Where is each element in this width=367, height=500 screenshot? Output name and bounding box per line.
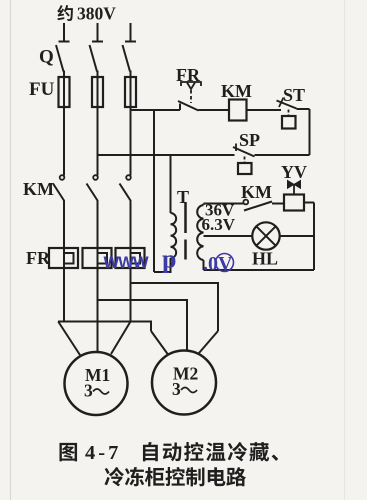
contactor KM main contact pole 1 bbox=[53, 175, 64, 200]
pressure switch SP contact bbox=[233, 144, 310, 157]
wire phase 3 FR to funnel bar bbox=[130, 268, 132, 322]
caption line 1 图4-7 自动控温冷藏、 bbox=[59, 442, 278, 464]
svg-text:3: 3 bbox=[84, 381, 93, 401]
label 36V bbox=[205, 201, 235, 220]
thermostat ST sensor element bbox=[282, 110, 296, 129]
motor M1 bbox=[65, 352, 128, 415]
watermark P (blue) bbox=[162, 245, 176, 274]
wire branch phase 3 to motor M2 (right) bbox=[131, 283, 219, 353]
wire primary bottom U bbox=[154, 258, 171, 272]
svg-text:KM: KM bbox=[221, 81, 252, 101]
svg-text:WWW: WWW bbox=[104, 254, 150, 272]
svg-text:6.3V: 6.3V bbox=[202, 215, 236, 234]
wire ST to SP line (right drop) bbox=[309, 109, 311, 155]
contactor coil KM bbox=[229, 100, 247, 121]
wire phase 2 FR to motor M1 bbox=[97, 268, 99, 353]
svg-text:KM: KM bbox=[241, 182, 272, 202]
wire lamp to right rail bbox=[280, 235, 314, 237]
wire branch phase 2 to motor M2 (middle) bbox=[98, 300, 188, 352]
label KM (main contacts) bbox=[23, 179, 54, 199]
wire secondary 36V tap bbox=[204, 204, 244, 206]
wire phase 1 fuse to KM contact bbox=[63, 107, 65, 176]
switch Q blade pole 1 bbox=[56, 45, 64, 72]
wire phase 2 fuse to KM contact bbox=[97, 107, 99, 176]
wire right rail bbox=[313, 203, 315, 271]
contactor KM main contact pole 2 bbox=[87, 175, 98, 200]
wire FR contact to KM coil bbox=[199, 109, 230, 111]
svg-text:HL: HL bbox=[252, 249, 278, 269]
svg-text:FU: FU bbox=[29, 79, 55, 100]
svg-text:3: 3 bbox=[172, 379, 181, 399]
label 6.3V bbox=[202, 215, 236, 234]
wire phase 3 fuse to KM contact bbox=[130, 107, 132, 176]
indicator lamp HL bbox=[252, 222, 279, 249]
wire phase 3 tap to FR contact bbox=[130, 109, 181, 111]
wire M2 funnel left bbox=[151, 321, 168, 355]
wire phase 1 KM contact to FR element bbox=[63, 200, 65, 248]
thermal relay FR heater element pole 3 bbox=[116, 248, 145, 268]
thermostat switch ST contact bbox=[277, 98, 310, 110]
svg-text:4-7: 4-7 bbox=[85, 442, 121, 464]
label FU bbox=[29, 79, 55, 100]
fuse FU pole 2 bbox=[92, 71, 103, 108]
contactor KM main contact pole 3 bbox=[120, 175, 131, 200]
svg-text:FR: FR bbox=[26, 248, 51, 268]
svg-text:YV: YV bbox=[281, 162, 307, 182]
wire control drop x154 bbox=[153, 110, 155, 272]
caption line 2 冷冻柜控制电路 bbox=[104, 467, 246, 486]
label T bbox=[177, 187, 189, 207]
label power supply 约380V bbox=[57, 4, 116, 24]
watermark www (blue) bbox=[104, 254, 150, 272]
label KM (coil) bbox=[221, 81, 252, 101]
wire YV to right rail bbox=[304, 202, 314, 204]
label FR bbox=[26, 248, 51, 268]
wire phase 2 KM contact to FR element bbox=[97, 200, 99, 248]
wire phase 3 KM contact to FR element bbox=[130, 200, 132, 248]
svg-text:380V: 380V bbox=[77, 4, 116, 24]
transformer T core bbox=[184, 202, 187, 260]
svg-text:Q: Q bbox=[39, 47, 54, 68]
fuse FU pole 3 bbox=[125, 71, 136, 108]
label ST bbox=[283, 85, 305, 105]
fuse FU pole 1 bbox=[59, 71, 70, 108]
label HL bbox=[252, 249, 278, 269]
switch Q blade pole 2 bbox=[90, 45, 98, 72]
wire M1 funnel left diagonal bbox=[58, 322, 80, 356]
wire secondary 0V bottom bbox=[204, 260, 315, 270]
contactor KM auxiliary contact (36V line) bbox=[243, 200, 284, 211]
wire M1 funnel right diagonal bbox=[111, 322, 131, 355]
node phase L2 supply stub bbox=[92, 23, 103, 42]
svg-text:ST: ST bbox=[283, 85, 305, 105]
watermark .0V (blue) bbox=[203, 253, 234, 275]
wire primary top bbox=[170, 155, 172, 213]
label YV bbox=[281, 162, 307, 182]
node phase L1 supply stub bbox=[59, 23, 70, 42]
thermal relay FR heater element pole 2 bbox=[83, 248, 112, 268]
transformer T secondary winding bbox=[197, 205, 203, 260]
label Q bbox=[39, 47, 54, 68]
wire phase 1 FR to funnel bar bbox=[63, 268, 65, 322]
motor M2 bbox=[152, 351, 216, 415]
label SP bbox=[239, 130, 260, 150]
pressure switch SP sensor element bbox=[238, 157, 252, 175]
transformer T primary winding bbox=[171, 213, 177, 258]
svg-text:KM: KM bbox=[23, 179, 54, 199]
svg-text:p: p bbox=[162, 245, 176, 274]
svg-text:T: T bbox=[177, 187, 189, 207]
wire funnel bar bbox=[58, 321, 151, 323]
switch Q blade pole 3 bbox=[123, 45, 131, 72]
solenoid valve YV bbox=[284, 181, 304, 211]
thermal relay FR heater element pole 1 bbox=[49, 248, 78, 268]
wire secondary 6.3V tap to lamp bbox=[204, 235, 253, 237]
node phase L3 supply stub bbox=[125, 23, 136, 42]
label FR (control contact) bbox=[176, 65, 201, 85]
thermal relay FR NC contact bbox=[178, 82, 201, 111]
label KM (aux contact) bbox=[241, 182, 272, 202]
svg-text:SP: SP bbox=[239, 130, 260, 150]
wire KM coil to ST bbox=[247, 109, 282, 111]
wire phase 2 tap to SP bbox=[98, 154, 235, 156]
